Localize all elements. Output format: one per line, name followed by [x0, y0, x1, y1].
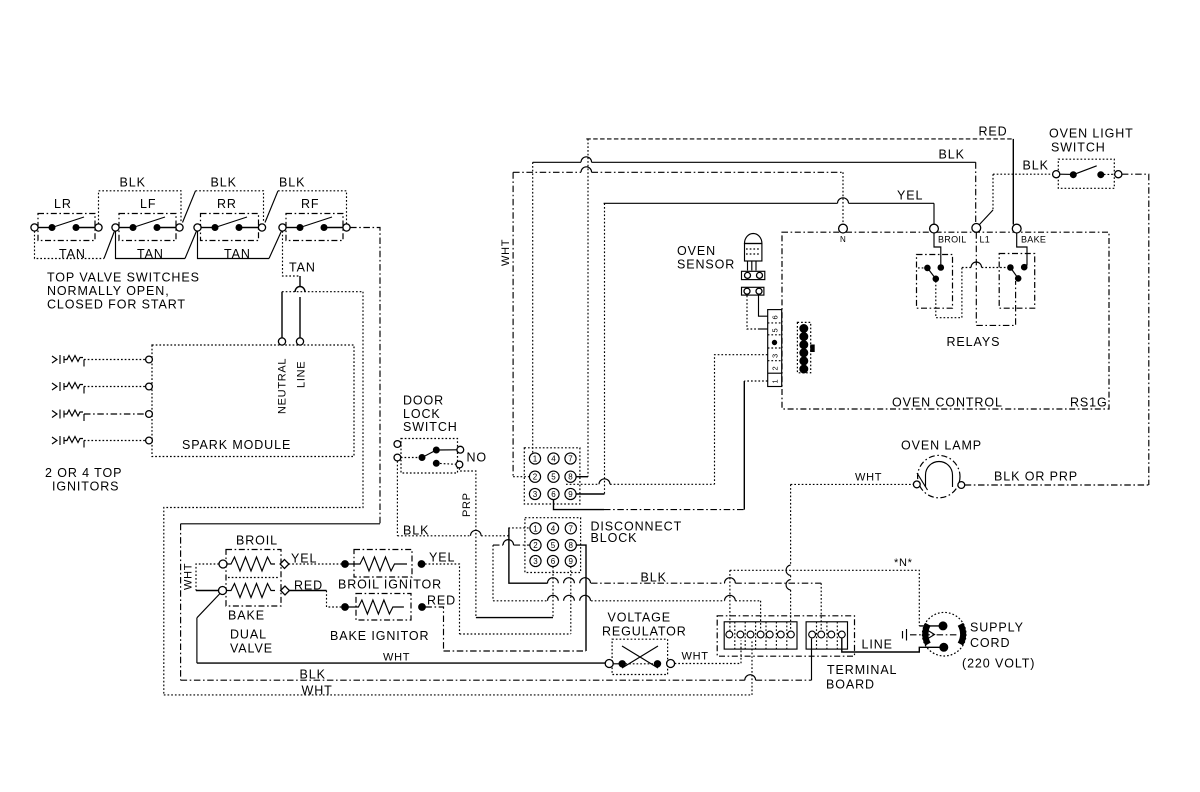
- svg-text:BAKE: BAKE: [1021, 235, 1046, 245]
- wire P3 run: [715, 355, 768, 485]
- wire RED long vertical to connector pin8: [587, 139, 589, 477]
- svg-text:BLK: BLK: [403, 524, 429, 538]
- wire BLK loop 1 (LR to LF): [99, 191, 182, 224]
- wire grid2 pin2 to terminal board run: [493, 600, 548, 602]
- svg-text:NEUTRAL: NEUTRAL: [277, 358, 289, 414]
- wire TAN loop 3: [198, 231, 270, 259]
- wire YEL drop to BROIL terminal: [933, 203, 935, 224]
- svg-text:3: 3: [533, 490, 538, 499]
- svg-text:2: 2: [771, 366, 780, 370]
- svg-text:5: 5: [771, 328, 780, 332]
- oven sensor plug: [742, 271, 765, 279]
- terminal board box: [717, 616, 854, 656]
- wire TAN from RF to spark module LINE: [283, 231, 301, 276]
- wire BLK loop 2 (LF to RR): [183, 191, 196, 223]
- svg-text:8: 8: [569, 541, 574, 550]
- svg-text:LINE: LINE: [296, 361, 308, 388]
- svg-text:LF: LF: [140, 197, 156, 211]
- wire grid2 pin1 feed: [509, 528, 530, 536]
- bake ignitor: [342, 604, 349, 611]
- svg-text:4: 4: [551, 455, 556, 464]
- svg-text:8: 8: [568, 473, 573, 482]
- wire YEL run to grid2 pin9: [460, 633, 571, 635]
- wire sensor to P5: [747, 296, 758, 330]
- svg-text:RS1G: RS1G: [1070, 396, 1108, 410]
- ribbon connector 6 dots: [797, 322, 810, 372]
- connector block grid1: [524, 448, 580, 504]
- svg-text:(220 VOLT): (220 VOLT): [962, 657, 1035, 671]
- switch RF box: [286, 214, 343, 241]
- wire valve to bottom left: [197, 594, 220, 618]
- oven control terminal N: [839, 224, 848, 233]
- svg-text:BLK: BLK: [279, 176, 305, 190]
- igniter 4: [52, 436, 146, 448]
- svg-text:6: 6: [551, 557, 556, 566]
- svg-text:OVEN: OVEN: [677, 244, 716, 258]
- svg-text:PRP: PRP: [461, 492, 473, 517]
- broil ignitor: [342, 561, 349, 568]
- svg-text:6: 6: [551, 490, 556, 499]
- svg-text:DOOR: DOOR: [403, 394, 444, 408]
- wire grid1 pin6 to oven control P1: [554, 500, 605, 510]
- wire neutral bus to spark module: [282, 291, 363, 293]
- svg-text:BROIL: BROIL: [236, 534, 278, 548]
- svg-text:SUPPLY: SUPPLY: [970, 621, 1024, 635]
- wire BLK loop 3 (RR to RF): [265, 191, 278, 223]
- wire BROIL terminal into relay: [934, 233, 941, 265]
- wire BLK mid run grid2 to terminal board: [509, 528, 548, 583]
- switch RF contacts: [279, 224, 286, 231]
- svg-text:VOLTAGE: VOLTAGE: [608, 611, 672, 625]
- wire BLK from door lock to grid2: [396, 461, 398, 536]
- oven lamp: [918, 455, 960, 497]
- svg-text:OVEN LIGHT: OVEN LIGHT: [1049, 127, 1134, 141]
- wire WHT valve to voltage regulator: [197, 662, 605, 664]
- spark module terminal LINE: [296, 338, 303, 345]
- wire WHT long vertical: [512, 172, 514, 476]
- svg-text:LR: LR: [54, 197, 72, 211]
- wire grid1 to oven control P3 with bump over YEL: [566, 483, 599, 485]
- relay broil box: [917, 255, 953, 309]
- oven sensor receptacle: [742, 287, 764, 295]
- oven control box: [782, 232, 1109, 409]
- svg-text:3: 3: [771, 354, 780, 358]
- svg-text:BLK: BLK: [120, 176, 146, 190]
- wire RED run to grid2 pin8: [444, 650, 587, 652]
- wire relay link with bump over L1: [962, 267, 971, 269]
- svg-text:CORD: CORD: [970, 636, 1010, 650]
- svg-text:WHT: WHT: [855, 472, 882, 484]
- wire TAN loop 1: [35, 231, 105, 259]
- valve bake coil: [219, 587, 227, 595]
- valve broil coil: [219, 560, 227, 568]
- wire TAN loop 2: [116, 231, 186, 259]
- wire LINE out to supply cord: [842, 638, 940, 652]
- supply cord: [922, 612, 966, 656]
- svg-text:5: 5: [551, 541, 556, 550]
- igniter 3: [52, 410, 146, 422]
- wire BLK OR PRP lamp to switch: [965, 484, 1149, 486]
- switch RR box: [201, 214, 259, 241]
- igniter 1: [52, 355, 146, 367]
- svg-text:NORMALLY OPEN,: NORMALLY OPEN,: [47, 284, 170, 298]
- svg-text:TAN: TAN: [289, 261, 316, 275]
- svg-text:BLK: BLK: [300, 668, 326, 682]
- door lock switch box: [401, 439, 458, 474]
- wire drop to N terminal: [842, 172, 844, 224]
- svg-text:BLK OR PRP: BLK OR PRP: [994, 470, 1078, 484]
- wire oven light switch to lamp drop: [1122, 174, 1149, 485]
- svg-text:9: 9: [569, 557, 574, 566]
- terminal board right block: [806, 622, 847, 649]
- svg-text:YEL: YEL: [897, 189, 923, 203]
- svg-text:DUAL: DUAL: [230, 628, 267, 642]
- svg-text:SWITCH: SWITCH: [403, 420, 458, 434]
- svg-text:NO: NO: [467, 451, 488, 465]
- svg-text:TAN: TAN: [137, 247, 164, 261]
- disconnect block grid2: [525, 518, 581, 573]
- svg-text:3: 3: [533, 557, 538, 566]
- wire YEL long vertical to connector pin9: [604, 203, 606, 494]
- svg-text:*N*: *N*: [894, 557, 913, 569]
- svg-text:RF: RF: [301, 197, 319, 211]
- switch LR box: [38, 214, 95, 241]
- svg-text:YEL: YEL: [429, 551, 455, 565]
- svg-text:LOCK: LOCK: [403, 407, 441, 421]
- svg-text:VALVE: VALVE: [230, 642, 273, 656]
- svg-text:WHT: WHT: [500, 239, 512, 266]
- svg-text:WHT: WHT: [183, 563, 195, 590]
- svg-text:REGULATOR: REGULATOR: [602, 625, 687, 639]
- svg-text:RR: RR: [217, 197, 237, 211]
- relay bake box: [999, 254, 1034, 309]
- svg-text:2: 2: [533, 473, 538, 482]
- svg-text:BROIL: BROIL: [938, 235, 967, 245]
- svg-text:BAKE: BAKE: [228, 609, 265, 623]
- wire RED top run: [586, 138, 1013, 140]
- wire WHT to oven lamp: [791, 483, 914, 485]
- wire grid1 pin9 out: [576, 493, 604, 495]
- svg-text:1: 1: [533, 455, 538, 464]
- igniter 2: [52, 382, 146, 394]
- wire WHT lamp drop to terminal board: [790, 484, 792, 631]
- svg-text:N: N: [840, 235, 846, 244]
- spark module terminal NEUTRAL: [278, 338, 285, 345]
- svg-text:BLK: BLK: [1023, 159, 1049, 173]
- oven light switch box: [1058, 159, 1114, 188]
- svg-text:RELAYS: RELAYS: [947, 335, 1001, 349]
- svg-text:SENSOR: SENSOR: [677, 258, 735, 272]
- svg-text:BLK: BLK: [641, 571, 667, 585]
- svg-text:SWITCH: SWITCH: [1051, 141, 1106, 155]
- svg-text:WHT: WHT: [383, 652, 410, 664]
- svg-text:IGNITORS: IGNITORS: [52, 480, 119, 494]
- oven sensor bulb: [745, 234, 762, 244]
- oven control terminal BROIL: [930, 224, 939, 233]
- svg-text:RED: RED: [979, 125, 1008, 139]
- svg-text:BLK: BLK: [211, 176, 237, 190]
- svg-text:6: 6: [771, 315, 780, 319]
- svg-text:1: 1: [771, 379, 780, 383]
- door lock switch contacts: [394, 441, 401, 448]
- svg-text:BROIL IGNITOR: BROIL IGNITOR: [338, 578, 442, 592]
- svg-text:OVEN LAMP: OVEN LAMP: [901, 439, 982, 453]
- switch RR contacts: [194, 224, 201, 231]
- wire WHT valve link: [196, 564, 219, 591]
- svg-text:YEL: YEL: [291, 552, 317, 566]
- relay broil contacts: [925, 265, 931, 271]
- wire grid2 pin2 feed: [493, 544, 503, 546]
- svg-text:2 OR 4 TOP: 2 OR 4 TOP: [45, 466, 122, 480]
- switch LF contacts: [112, 224, 119, 231]
- wire BLK long vertical to connector pin1: [532, 162, 534, 453]
- oven control terminal BAKE: [1012, 224, 1021, 233]
- relay bake contacts: [1008, 265, 1014, 271]
- svg-text:5: 5: [551, 473, 556, 482]
- wire N bus: [730, 570, 919, 626]
- svg-text:LINE: LINE: [862, 638, 893, 652]
- wire YEL top run: [604, 198, 934, 203]
- wire grid1 pin8 out: [576, 476, 588, 478]
- oven control plug strip: [768, 310, 782, 387]
- voltage regulator: [612, 639, 668, 674]
- wire big BLK loop left: [350, 228, 380, 524]
- svg-text:TAN: TAN: [224, 247, 251, 261]
- terminal board left block: [724, 622, 797, 649]
- switch LF box: [119, 214, 176, 241]
- wire BLK top run: [533, 157, 976, 162]
- svg-text:OVEN CONTROL: OVEN CONTROL: [892, 396, 1003, 410]
- svg-text:BLOCK: BLOCK: [591, 531, 638, 545]
- wire big WHT loop left: [164, 292, 363, 695]
- svg-text:BOARD: BOARD: [826, 678, 875, 692]
- wire P1 run: [744, 380, 767, 382]
- wire BAKE terminal into relay: [1017, 233, 1027, 265]
- wire BLK drop to L1 terminal: [975, 162, 977, 223]
- svg-text:SPARK MODULE: SPARK MODULE: [182, 438, 291, 452]
- wire sensor to P6: [759, 296, 768, 317]
- wire RED drop to BAKE terminal: [1012, 139, 1014, 225]
- spark module box: [152, 345, 354, 457]
- svg-text:CLOSED FOR START: CLOSED FOR START: [47, 298, 186, 312]
- wire grid1 pin2 feed: [513, 476, 529, 478]
- svg-text:TOP VALVE SWITCHES: TOP VALVE SWITCHES: [47, 271, 200, 285]
- svg-text:4: 4: [551, 524, 556, 533]
- svg-text:7: 7: [569, 524, 574, 533]
- wire PRP link to grid2 pin6: [476, 617, 553, 619]
- svg-text:RED: RED: [427, 594, 456, 608]
- oven light switch contacts: [1053, 171, 1060, 178]
- oven control terminal L1: [972, 224, 981, 233]
- wire grid2 pin8 out: [576, 545, 586, 651]
- wire PRP from door lock: [459, 468, 476, 618]
- wire relay broil armature out: [936, 268, 962, 318]
- svg-text:WHT: WHT: [682, 651, 709, 663]
- wire neutral dash-dot top run: [513, 171, 581, 173]
- wire BLK to oven light switch: [993, 173, 1053, 175]
- svg-text:7: 7: [568, 455, 573, 464]
- wire grid2 pin9 down: [570, 567, 572, 634]
- svg-text:2: 2: [533, 541, 538, 550]
- svg-text:TERMINAL: TERMINAL: [827, 663, 897, 677]
- switch LR contacts: [31, 224, 38, 231]
- svg-text:BLK: BLK: [939, 148, 965, 162]
- wire grid2 pin6 down: [552, 567, 554, 618]
- svg-text:TAN: TAN: [59, 247, 86, 261]
- svg-text:WHT: WHT: [302, 684, 333, 698]
- dual valve box: [226, 550, 281, 607]
- svg-text:1: 1: [533, 524, 538, 533]
- svg-text:L1: L1: [980, 235, 991, 245]
- wire L1 drop: [976, 232, 1015, 325]
- svg-text:9: 9: [568, 490, 573, 499]
- svg-text:BAKE IGNITOR: BAKE IGNITOR: [330, 629, 429, 643]
